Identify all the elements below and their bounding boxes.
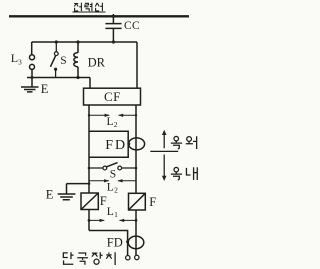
svg-text:F: F	[149, 195, 156, 209]
옥	[171, 167, 182, 179]
내	[186, 167, 197, 180]
wire: top horizontal wire	[32, 41, 137, 43]
svg-text:E: E	[46, 187, 54, 201]
protector FD (upper) circle	[129, 138, 145, 150]
wire: left F box to joining wire	[88, 210, 90, 231]
단	[63, 252, 73, 264]
svg-text:L: L	[107, 206, 114, 218]
node: coil DR bottom junction	[76, 76, 79, 79]
wire: right bus FD to switch row	[135, 136, 137, 193]
wire: switch to bottom wire	[55, 69, 57, 77]
svg-text:CC: CC	[124, 20, 140, 32]
svg-text:S: S	[60, 55, 66, 67]
svg-text:S: S	[110, 169, 116, 181]
terminal L3 lower contact	[30, 64, 35, 69]
장	[92, 252, 103, 264]
filter CF box	[84, 88, 141, 105]
node: coil DR top junction	[76, 40, 79, 43]
fuse F (left) diagonal	[81, 193, 98, 210]
wire: down to terminal L3	[31, 42, 33, 55]
node: ground junction	[31, 76, 34, 79]
svg-text:2: 2	[114, 186, 118, 195]
terminal L3 upper contact	[30, 55, 35, 60]
node: FD circle left joint	[126, 240, 129, 243]
switch S (knife, open)	[54, 52, 58, 56]
wire: top wire right corner down to CF	[136, 42, 138, 88]
svg-text:2: 2	[114, 120, 118, 129]
capacitor CC	[105, 24, 121, 29]
wire: right bus CF to FD circle	[135, 105, 137, 136]
terminal (right)	[135, 255, 139, 259]
switch S (lower) right contact	[118, 166, 122, 170]
terminal (left)	[126, 256, 130, 260]
wire: power line to capacitor	[112, 14, 114, 23]
wire: right F box down through FD to terminal	[135, 210, 137, 255]
protector FD (lower) circle	[128, 236, 144, 249]
fuse F (left) box	[81, 193, 98, 210]
label 옥내 (indoor)	[171, 167, 197, 180]
wire: switch S row	[89, 167, 136, 169]
boundary marker outdoor/indoor	[150, 130, 178, 181]
fuse F (right) diagonal	[129, 193, 146, 210]
svg-text:3: 3	[18, 58, 22, 67]
선	[95, 3, 102, 11]
svg-text:FD: FD	[107, 236, 123, 250]
node: earth joint on left bus	[88, 182, 91, 185]
wire: bottom wire corner down to CF	[89, 78, 91, 89]
svg-text:F: F	[100, 194, 107, 208]
node: L1 dim ends	[88, 219, 91, 222]
wire: earth branch (lower)	[67, 183, 90, 185]
력	[85, 3, 92, 12]
node: L2 dim ends	[88, 114, 90, 116]
wire: left bus below CF	[88, 105, 90, 193]
boundary line	[150, 150, 178, 152]
switch S (lower) left contact	[103, 166, 107, 170]
label 단국장치 (terminal equipment)	[63, 252, 115, 265]
node: S row bus joints	[88, 167, 91, 170]
svg-text:L: L	[107, 116, 114, 128]
svg-text:1: 1	[114, 210, 118, 219]
svg-text:CF: CF	[104, 89, 121, 104]
dimension L2 (middle) line	[89, 180, 136, 182]
fuse F (right) box	[129, 193, 146, 210]
ground E (lower)	[58, 184, 76, 200]
wire: down to switch	[55, 42, 57, 52]
caption underline	[72, 11, 105, 13]
dimension L1 arrowheads	[100, 219, 125, 222]
switch lower contact	[54, 68, 57, 71]
svg-text:FD: FD	[105, 138, 127, 153]
node: CC tap on power line	[112, 15, 115, 18]
svg-text:L: L	[107, 182, 114, 194]
svg-text:DR: DR	[88, 55, 106, 69]
wire: left branch to FD (lower)	[89, 231, 128, 256]
arrow down	[163, 155, 165, 178]
svg-text:E: E	[41, 82, 49, 96]
label 전력선 (power line caption)	[74, 3, 102, 12]
wire: bottom horizontal wire	[27, 77, 90, 79]
inductor DR (drain coil)	[74, 42, 78, 78]
dimension L2 (middle) arrowheads	[104, 179, 122, 182]
power line (top bus)	[9, 15, 189, 17]
전	[74, 3, 81, 11]
node: capacitor junction	[112, 40, 115, 43]
국	[77, 253, 88, 265]
node: FD circle left joint (upper)	[127, 142, 130, 145]
dimension L2 line	[89, 114, 136, 116]
label 옥외 (outdoor)	[171, 136, 197, 149]
ground E (upper)	[21, 78, 39, 92]
dimension L1 line	[89, 219, 136, 221]
옥	[171, 136, 182, 148]
node: switch S top junction	[55, 40, 58, 43]
switch S (lower) blade	[107, 163, 118, 167]
switch blade	[50, 56, 55, 67]
protector FD (upper) box	[89, 131, 128, 157]
wire: lower contact to bottom wire	[31, 70, 33, 78]
wire: capacitor down to top wire	[112, 28, 114, 42]
dimension L2 arrowheads	[105, 114, 124, 117]
치	[106, 252, 115, 265]
arrow up	[163, 133, 165, 148]
외	[186, 136, 197, 149]
